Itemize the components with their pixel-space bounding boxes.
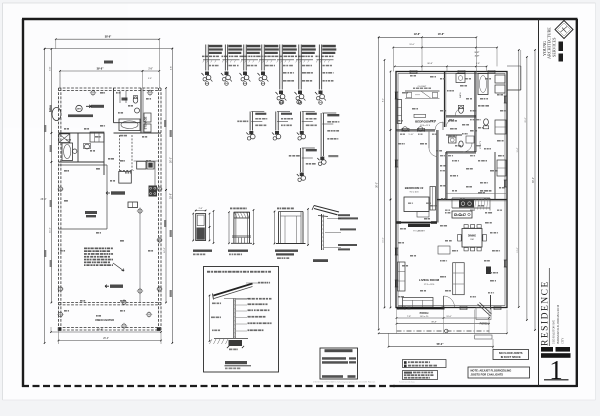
svg-text:2/6/2013 10:39:54 AM C:\Users: 2/6/2013 10:39:54 AM C:\Users\young\Docu…: [313, 381, 376, 384]
svg-text:19'-8": 19'-8": [414, 33, 421, 36]
svg-text:3135 RALSTON AVE: 3135 RALSTON AVE: [553, 320, 556, 344]
svg-text:UTILITY: UTILITY: [480, 140, 482, 149]
svg-text:36'-0": 36'-0": [377, 182, 379, 188]
svg-text:13'-0": 13'-0": [517, 247, 519, 252]
svg-text:36'-0": 36'-0": [533, 177, 535, 183]
svg-text:3'-0": 3'-0": [475, 56, 480, 58]
svg-text:9'0 x 10'0: 9'0 x 10'0: [410, 192, 420, 194]
svg-text:DINING: DINING: [468, 236, 476, 238]
svg-text:56'-0": 56'-0": [437, 343, 445, 346]
svg-text:NOTE: ADJUST FLOOR/CEILING: NOTE: ADJUST FLOOR/CEILING: [471, 368, 512, 372]
svg-text:BATH: BATH: [459, 92, 462, 98]
svg-text:15'-0": 15'-0": [49, 227, 51, 233]
svg-text:CITY: CITY: [562, 338, 565, 344]
svg-text:5'-0": 5'-0": [475, 52, 480, 54]
svg-text:21'-0": 21'-0": [525, 117, 527, 122]
svg-text:RM: RM: [470, 239, 474, 241]
svg-text:SERVICES: SERVICES: [551, 37, 556, 57]
svg-text:KITCHEN: KITCHEN: [454, 215, 464, 217]
svg-text:39'-8": 39'-8": [97, 67, 105, 70]
svg-text:11'-4": 11'-4": [517, 147, 519, 152]
svg-text:UNEXCAVATED: UNEXCAVATED: [95, 318, 114, 322]
svg-text:12'-0": 12'-0": [164, 247, 166, 253]
svg-text:5'-10": 5'-10": [408, 134, 413, 136]
svg-text:39'-8": 39'-8": [97, 328, 103, 331]
svg-text:Koversioned dwg: Koversioned dwg: [399, 382, 414, 384]
svg-text:39'-8": 39'-8": [431, 322, 437, 324]
svg-text:IN DUCT SPACE: IN DUCT SPACE: [501, 355, 521, 359]
svg-text:TV CABINET: TV CABINET: [413, 229, 426, 232]
svg-text:26'-0": 26'-0": [103, 338, 109, 340]
svg-text:3'-8": 3'-8": [148, 68, 153, 70]
svg-text:JOISTS FOR CAN LIGHTS: JOISTS FOR CAN LIGHTS: [471, 373, 504, 377]
svg-text:INDIANAPOLIS, INDIANA 46218: INDIANAPOLIS, INDIANA 46218: [557, 304, 560, 344]
svg-text:17'4 x 20'0: 17'4 x 20'0: [424, 284, 435, 286]
svg-text:15'-0": 15'-0": [383, 237, 385, 242]
svg-text:38'-8": 38'-8": [105, 36, 112, 39]
svg-text:39'-8": 39'-8": [170, 193, 172, 199]
svg-text:2'-8": 2'-8": [199, 208, 203, 210]
svg-text:3'-8": 3'-8": [170, 66, 172, 70]
svg-text:7'-8": 7'-8": [407, 316, 411, 318]
svg-text:WH: WH: [77, 109, 81, 111]
svg-text:26'-0": 26'-0": [41, 198, 47, 201]
svg-text:19'-0": 19'-0": [446, 316, 452, 318]
svg-text:1: 1: [549, 355, 563, 385]
svg-text:PORCH: PORCH: [420, 312, 429, 315]
svg-text:30'-8": 30'-8": [427, 63, 433, 65]
svg-text:BEDROOM #2: BEDROOM #2: [405, 186, 424, 190]
svg-text:19'-0": 19'-0": [409, 44, 415, 46]
svg-text:16'-8": 16'-8": [438, 33, 445, 36]
svg-text:26'-0": 26'-0": [170, 157, 172, 163]
svg-text:LIVING ROOM: LIVING ROOM: [419, 278, 440, 282]
svg-text:NO FLOOR JOISTS: NO FLOOR JOISTS: [499, 351, 523, 355]
svg-text:8'-0": 8'-0": [383, 98, 385, 102]
svg-text:3'-8": 3'-8": [148, 78, 152, 80]
